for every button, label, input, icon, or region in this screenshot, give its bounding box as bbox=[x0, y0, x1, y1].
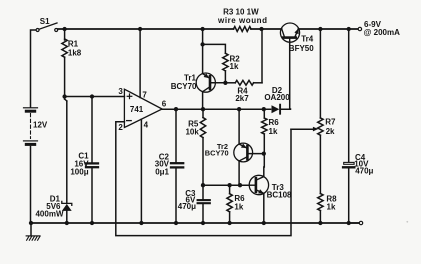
label D1 5V6 400mW bbox=[35, 195, 63, 219]
wire pin4 to ground rail bbox=[139, 119, 143, 225]
svg-text:BFY50: BFY50 bbox=[289, 44, 314, 53]
label R8 1k bbox=[326, 194, 337, 211]
label R5 10k bbox=[185, 120, 199, 137]
terminal output positive bbox=[358, 27, 361, 30]
label C3 6V 470u bbox=[178, 189, 196, 211]
label S1 bbox=[40, 17, 50, 26]
label R7 2k bbox=[325, 117, 336, 136]
svg-text:1k: 1k bbox=[269, 127, 278, 136]
label pin3 + bbox=[118, 87, 131, 99]
zener diode D1 bbox=[62, 97, 72, 226]
wire top rail bbox=[58, 28, 358, 30]
resistor R6a bbox=[262, 109, 267, 167]
label R1 1k8 bbox=[68, 39, 82, 57]
svg-text:1k: 1k bbox=[327, 202, 336, 211]
svg-text:10k: 10k bbox=[185, 128, 199, 137]
capacitor C1 bbox=[86, 97, 98, 226]
label pin4 bbox=[144, 120, 149, 129]
wire top-left corner bbox=[31, 30, 37, 107]
svg-text:100μ: 100μ bbox=[70, 167, 88, 176]
wire pin6 line bbox=[162, 107, 271, 111]
wire pin2 feedback bbox=[116, 122, 291, 236]
svg-text:@ 200mA: @ 200mA bbox=[364, 28, 400, 37]
svg-text:2k7: 2k7 bbox=[235, 94, 249, 103]
svg-text:400mW: 400mW bbox=[35, 210, 63, 219]
label 741 bbox=[130, 105, 144, 114]
resistor R2 bbox=[203, 44, 229, 85]
label R3 10 1W wire wound bbox=[217, 7, 268, 25]
label 6-9V 200mA bbox=[364, 20, 400, 37]
svg-text:2: 2 bbox=[118, 123, 123, 132]
label R4 2k7 bbox=[235, 87, 249, 104]
transistor Tr3 bbox=[249, 167, 268, 225]
svg-text:OA200: OA200 bbox=[264, 93, 290, 102]
transistor Tr1 bbox=[196, 27, 225, 109]
svg-text:1k8: 1k8 bbox=[68, 48, 82, 57]
svg-text:R1: R1 bbox=[68, 39, 79, 48]
label pin2 - bbox=[118, 121, 131, 132]
label D2 OA200 bbox=[264, 86, 290, 102]
svg-text:0μ1: 0μ1 bbox=[155, 167, 169, 176]
svg-text:741: 741 bbox=[130, 105, 144, 114]
svg-text:S1: S1 bbox=[40, 17, 50, 26]
svg-text:4: 4 bbox=[144, 120, 149, 129]
transistor Tr2 bbox=[234, 109, 266, 185]
resistor R4 bbox=[225, 29, 262, 85]
svg-text:1k: 1k bbox=[230, 62, 239, 71]
svg-text:470μ: 470μ bbox=[178, 202, 196, 211]
svg-text:3: 3 bbox=[118, 87, 123, 96]
label R6a 1k bbox=[269, 118, 280, 136]
svg-text:Tr4: Tr4 bbox=[301, 35, 314, 44]
svg-text:2k: 2k bbox=[326, 127, 335, 136]
ground bbox=[26, 221, 40, 240]
label 12V bbox=[33, 121, 48, 130]
resistor R5 bbox=[200, 109, 205, 185]
svg-text:12V: 12V bbox=[33, 121, 48, 130]
label R2 1k bbox=[230, 55, 241, 71]
capacitor C4 bbox=[343, 27, 354, 225]
op-amp U1 741 bbox=[124, 89, 162, 127]
terminal output negative bbox=[349, 221, 363, 224]
svg-text:BC108: BC108 bbox=[267, 191, 292, 200]
label Tr4 BFY50 bbox=[289, 35, 314, 54]
svg-text:7: 7 bbox=[142, 90, 147, 99]
capacitor C3 bbox=[198, 185, 210, 225]
svg-text:R7: R7 bbox=[325, 117, 336, 126]
label Tr1 BCY70 bbox=[171, 74, 197, 91]
label Tr3 BC108 bbox=[267, 183, 292, 199]
label C1 16V 100u bbox=[70, 152, 89, 177]
resistor R1 bbox=[62, 27, 67, 97]
diode D2 bbox=[272, 105, 291, 114]
svg-text:6: 6 bbox=[162, 99, 167, 108]
svg-text:R6: R6 bbox=[269, 118, 280, 127]
svg-text:BCY70: BCY70 bbox=[205, 149, 229, 158]
svg-text:wire wound: wire wound bbox=[217, 16, 268, 25]
wire pin7 to rail bbox=[138, 27, 142, 98]
resistor R6b bbox=[227, 185, 232, 225]
label pin6 bbox=[162, 99, 167, 108]
capacitor C2 bbox=[171, 109, 183, 225]
potentiometer R7 bbox=[291, 27, 323, 194]
resistor R3 bbox=[234, 27, 264, 32]
label C4 10V 470u bbox=[354, 153, 373, 176]
label Tr2 BCY70 bbox=[205, 142, 229, 158]
wire bottom rail bbox=[31, 222, 360, 224]
wire Tr3 base line bbox=[201, 183, 250, 187]
label pin7 bbox=[142, 90, 147, 99]
svg-text:1k: 1k bbox=[234, 202, 243, 211]
transistor Tr4 bbox=[280, 23, 299, 109]
wire battery bottom bbox=[30, 147, 32, 224]
label R6b 1k bbox=[234, 194, 245, 211]
wire node A pin3 line bbox=[62, 94, 124, 98]
label C2 30V 0u1 bbox=[155, 152, 170, 176]
svg-text:BCY70: BCY70 bbox=[171, 82, 197, 91]
switch S1 bbox=[36, 23, 58, 32]
svg-text:470μ: 470μ bbox=[355, 167, 373, 176]
resistor R8 bbox=[318, 194, 323, 226]
battery 12V bbox=[24, 108, 38, 145]
